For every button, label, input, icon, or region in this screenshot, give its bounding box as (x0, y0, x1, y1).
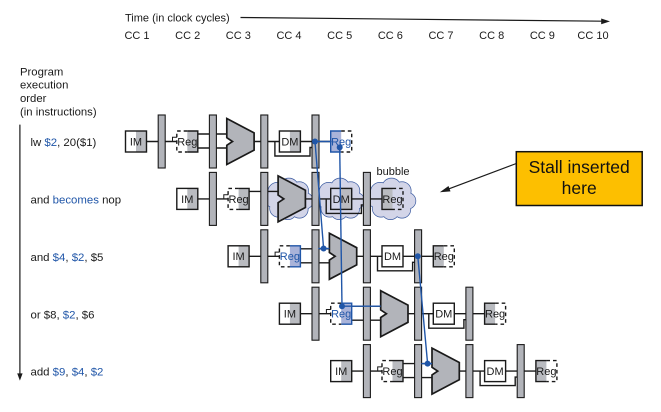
wire row4 DM to Reg (454, 313, 484, 315)
wire row2 Reg to ALU top (249, 190, 278, 192)
wire row3 DM to Reg (403, 255, 433, 257)
pipeline register bar row1 stage2 (209, 115, 216, 168)
svg-text:CC 7: CC 7 (428, 30, 453, 42)
pipeline register bar row5 stage4 (517, 345, 524, 398)
pipeline register bar row3 stage1 (261, 230, 268, 283)
wire row4 Reg to ALU bottom (352, 319, 381, 321)
junction dot and DM bar (415, 253, 421, 259)
svg-text:execution: execution (20, 80, 68, 92)
junction dot and ALU input (321, 246, 327, 252)
pipeline register bar row3 stage2 (312, 230, 319, 283)
Reg read box row3 (275, 246, 300, 267)
IM box row2 (177, 188, 198, 209)
pipeline register bar row5 stage3 (466, 345, 473, 398)
svg-text:bubble: bubble (376, 166, 409, 178)
wire row1 DM to Reg (300, 141, 330, 143)
pipeline register bar row2 stage3 (312, 172, 319, 225)
DM box row4 (433, 303, 454, 324)
stall callout box (516, 152, 642, 206)
forwarding line lw DM to and ALU (315, 142, 324, 249)
Reg write box row5 (536, 361, 557, 382)
svg-text:CC 1: CC 1 (124, 30, 149, 42)
pipeline register bar row4 stage1 (312, 287, 319, 340)
wire blue and ALU top input (318, 248, 329, 250)
wire row4 IM to Reg (300, 313, 330, 315)
pipeline register bar row5 stage2 (415, 345, 422, 398)
bypass wire under DM row2 (326, 199, 363, 214)
svg-text:IM: IM (232, 251, 244, 263)
svg-text:order: order (20, 93, 47, 105)
wire row5 ALU to DM (459, 370, 484, 372)
svg-text:Program: Program (20, 66, 63, 78)
pipeline register bar row1 stage4 (312, 115, 319, 168)
wire row5 DM to Reg (506, 370, 536, 372)
junction dot or Reg read (339, 303, 345, 309)
pipeline register bar row4 stage2 (363, 287, 370, 340)
DM box row3 (382, 246, 403, 267)
wire row4 Reg to ALU top (352, 305, 381, 307)
IM box row5 (331, 361, 352, 382)
stall callout arrow (440, 164, 517, 193)
svg-text:and $4, $2, $5: and $4, $2, $5 (31, 252, 104, 264)
svg-text:DM: DM (384, 251, 401, 263)
svg-text:DM: DM (487, 366, 504, 378)
svg-text:Reg: Reg (382, 366, 402, 378)
pipeline register bar row2 stage4 (363, 172, 370, 225)
svg-text:CC 4: CC 4 (276, 30, 301, 42)
DM box row2 (331, 188, 352, 209)
Reg read box row5 (378, 361, 403, 382)
svg-text:Reg: Reg (536, 366, 556, 378)
junction dot add ALU input (425, 361, 431, 367)
pipeline register bar row1 stage3 (261, 115, 268, 168)
forwarding line and DM to add ALU (418, 256, 428, 363)
DM box row1 (279, 131, 300, 152)
Reg read box row1 (173, 131, 198, 152)
pipeline register bar row4 stage3 (415, 287, 422, 340)
svg-text:CC 9: CC 9 (530, 30, 555, 42)
Reg write box row3 (433, 246, 454, 267)
svg-text:(in instructions): (in instructions) (20, 106, 97, 118)
wire row2 ALU to DM (305, 198, 330, 200)
svg-text:here: here (562, 178, 597, 198)
DM box row5 (485, 361, 506, 382)
svg-text:and becomes nop: and becomes nop (31, 195, 122, 207)
svg-text:Reg: Reg (434, 251, 454, 263)
svg-text:CC 5: CC 5 (327, 30, 352, 42)
wire row3 IM to Reg (249, 255, 279, 257)
pipeline register bar row3 stage4 (415, 230, 422, 283)
wire row2 IM to Reg (198, 198, 228, 200)
pipeline register bar row2 stage2 (261, 172, 268, 225)
bubble cloud over ALU (265, 179, 313, 220)
wire row5 Reg to ALU top (403, 363, 432, 365)
ALU row1 (227, 119, 254, 165)
Reg write box row2 (382, 188, 403, 209)
svg-text:DM: DM (435, 309, 452, 321)
wire blue add ALU top input (421, 363, 432, 365)
svg-text:Stall inserted: Stall inserted (529, 157, 630, 177)
svg-text:lw $2, 20($1): lw $2, 20($1) (31, 137, 97, 149)
svg-text:IM: IM (284, 309, 296, 321)
svg-text:DM: DM (281, 136, 298, 148)
svg-text:IM: IM (130, 136, 142, 148)
program order down arrow (17, 125, 22, 381)
svg-text:Time (in clock cycles): Time (in clock cycles) (125, 13, 230, 25)
IM box row3 (228, 246, 249, 267)
svg-text:add $9, $4, $2: add $9, $4, $2 (31, 367, 104, 379)
pipeline register bar row2 stage1 (209, 172, 216, 225)
wire row5 Reg to ALU bottom (403, 377, 432, 379)
pipeline register bar row3 stage3 (363, 230, 370, 283)
junction dot lw DM bar (312, 139, 318, 145)
wire row3 ALU to DM (357, 255, 382, 257)
dependence line lw Reg to or Reg (340, 147, 342, 306)
pipeline register bar row5 stage1 (363, 345, 370, 398)
bypass wire under DM row1 (275, 142, 312, 157)
svg-text:Reg: Reg (382, 194, 402, 206)
svg-text:CC 3: CC 3 (226, 30, 251, 42)
Reg read box row2 (224, 188, 249, 209)
wire row1 ALU to DM (254, 141, 279, 143)
pipeline register bar row4 stage4 (466, 287, 473, 340)
svg-text:Reg: Reg (177, 136, 197, 148)
svg-text:Reg: Reg (331, 309, 351, 321)
wire row4 ALU to DM (408, 313, 433, 315)
svg-text:CC 2: CC 2 (175, 30, 200, 42)
wire row5 IM to Reg (352, 370, 382, 372)
bubble cloud over DM (317, 179, 365, 220)
wire blue lw DM bar to Reg (315, 141, 332, 143)
wire row3 Reg to ALU bottom (300, 262, 329, 264)
Reg read box row4 (326, 303, 351, 324)
wire row3 Reg to ALU top (300, 248, 329, 250)
wire row1 Reg to ALU bottom (198, 147, 227, 149)
wire row2 DM to Reg (352, 198, 382, 200)
wire row1 Reg to ALU top (198, 133, 227, 135)
svg-text:CC 6: CC 6 (378, 30, 403, 42)
svg-text:IM: IM (335, 366, 347, 378)
wire blue or Reg to ALU top input (342, 305, 381, 307)
svg-text:IM: IM (181, 194, 193, 206)
bypass wire under DM row4 (429, 314, 466, 329)
bypass wire under DM row3 (378, 256, 415, 271)
svg-text:or $8, $2, $6: or $8, $2, $6 (31, 309, 95, 321)
time axis arrow (241, 18, 611, 25)
ALU row5 (432, 348, 459, 394)
IM box row4 (279, 303, 300, 324)
svg-text:Reg: Reg (280, 251, 300, 263)
ALU row3 (329, 233, 356, 279)
svg-text:Reg: Reg (485, 309, 505, 321)
IM box row1 (126, 131, 147, 152)
bubble cloud over Reg (368, 179, 416, 220)
Reg write box row1 (331, 131, 352, 152)
Reg write box row4 (485, 303, 506, 324)
svg-text:CC 10: CC 10 (577, 30, 608, 42)
svg-text:Reg: Reg (229, 194, 249, 206)
bypass wire under DM row5 (480, 371, 517, 386)
junction dot lw Reg write (337, 144, 343, 150)
ALU row2 (278, 176, 305, 222)
wire row1 IM to Reg (147, 141, 177, 143)
ALU row4 (381, 291, 408, 337)
pipeline register bar row1 stage1 (158, 115, 165, 168)
svg-text:CC 8: CC 8 (479, 30, 504, 42)
